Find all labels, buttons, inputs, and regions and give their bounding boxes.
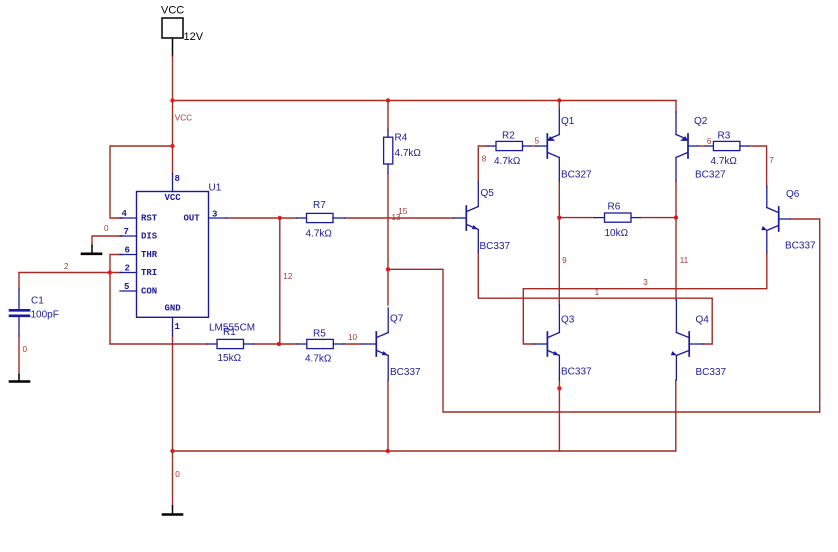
svg-text:GND: GND [165, 304, 182, 314]
wire DIS pin 7 to ground [92, 236, 122, 246]
node ground rail / Q7 emitter [386, 449, 390, 453]
svg-text:R1: R1 [223, 327, 236, 338]
svg-text:1: 1 [595, 288, 600, 297]
wire R6 right lead to net 11 [640, 217, 676, 219]
svg-text:2: 2 [125, 264, 130, 274]
svg-text:8: 8 [482, 154, 487, 163]
svg-text:10kΩ: 10kΩ [605, 228, 629, 239]
svg-text:3: 3 [643, 278, 648, 287]
wire R6 left lead [559, 217, 594, 219]
wire VCC vertical to top rail [172, 56, 174, 174]
transistor Q7 BC337 [362, 308, 388, 380]
wire R7 to Q5 base [345, 217, 454, 219]
transistor Q1 BC327 pnp [536, 110, 559, 181]
svg-text:R5: R5 [313, 329, 326, 340]
svg-text:Q4: Q4 [696, 315, 710, 326]
svg-text:4.7kΩ: 4.7kΩ [395, 148, 422, 159]
transistor Q6 BC337 mirrored [761, 186, 790, 253]
resistor R5 [297, 339, 345, 348]
svg-text:OUT: OUT [184, 214, 201, 224]
svg-text:BC327: BC327 [695, 170, 726, 181]
svg-text:15kΩ: 15kΩ [218, 353, 242, 364]
svg-text:BC337: BC337 [785, 241, 816, 252]
svg-text:12V: 12V [184, 31, 204, 43]
wire Q3 emitter to ground rail [558, 380, 560, 451]
svg-text:BC337: BC337 [696, 367, 727, 378]
svg-text:R2: R2 [502, 131, 515, 142]
svg-text:4: 4 [122, 209, 128, 219]
power VCC 12V source symbol [162, 18, 183, 56]
svg-text:4.7kΩ: 4.7kΩ [711, 156, 738, 167]
svg-text:Q3: Q3 [561, 315, 575, 326]
wire bottom ground rail [173, 450, 676, 452]
wire ground stem [172, 451, 174, 506]
svg-text:1: 1 [175, 322, 181, 332]
svg-text:CON: CON [141, 287, 157, 297]
node ground rail left [170, 449, 174, 453]
node Q1 collector / R6 / net 9 [557, 215, 561, 219]
svg-text:6: 6 [125, 246, 130, 256]
svg-text:9: 9 [562, 256, 567, 265]
wire OUT pin 3 to R7 [226, 217, 297, 219]
svg-text:15: 15 [398, 207, 408, 216]
svg-text:BC337: BC337 [561, 367, 592, 378]
U1 pin 1 lead [172, 317, 174, 336]
svg-text:100pF: 100pF [31, 310, 59, 321]
U1 pin 7 lead [120, 235, 137, 237]
wire riser to Q6 base [790, 219, 820, 412]
op-amp U1 LM555CM body [137, 192, 209, 318]
svg-text:R3: R3 [718, 131, 731, 142]
node top rail / VCC vertical [170, 98, 174, 102]
svg-text:0: 0 [23, 345, 28, 354]
svg-text:4.7kΩ: 4.7kΩ [306, 229, 333, 240]
node net 12 / R1 R5 [277, 342, 281, 346]
transistor Q5 BC337 [454, 182, 479, 252]
svg-text:5: 5 [535, 136, 540, 145]
U1 pin 6 lead [120, 254, 137, 256]
wire net 3 horizontal to Q3 base [523, 289, 767, 344]
svg-text:DIS: DIS [141, 232, 158, 242]
U1 pin 3 lead [209, 217, 227, 219]
node top rail / Q1 emitter [557, 98, 561, 102]
ground at bottom [163, 506, 182, 515]
resistor R1 [207, 339, 254, 348]
transistor Q4 BC337 mirrored [671, 300, 703, 380]
svg-text:VCC: VCC [175, 114, 192, 123]
wire Q2 base to R3 [698, 145, 706, 147]
svg-text:THR: THR [141, 250, 158, 260]
svg-text:0: 0 [104, 224, 109, 233]
wire R4 bottom to Q7 collector [387, 174, 389, 306]
svg-text:U1: U1 [209, 183, 222, 194]
wire net 15 branch to right riser [388, 269, 820, 412]
svg-text:12: 12 [283, 272, 293, 281]
node Q3 emitter [557, 386, 561, 390]
wire C1 top lead riser [18, 273, 20, 290]
wire TRI pin 2 from C1 [19, 272, 122, 274]
node THR-TRI junction [108, 270, 112, 274]
capacitor C1 [10, 289, 29, 336]
svg-text:8: 8 [175, 174, 180, 184]
svg-text:4.7kΩ: 4.7kΩ [494, 156, 521, 167]
svg-text:2: 2 [64, 262, 69, 271]
resistor R6 [595, 213, 641, 222]
resistor R4 vertical [384, 130, 393, 174]
U1 pin 8 lead [172, 174, 174, 192]
svg-text:VCC: VCC [161, 5, 184, 17]
wire Q6 emitter to net 3 [766, 253, 768, 289]
node R6 / Q2 collector / net 11 [674, 215, 678, 219]
wire net 12 vertical [279, 218, 281, 344]
wire net 1 Q5 emitter to Q4 base [478, 252, 712, 344]
transistor Q3 BC337 [534, 305, 559, 380]
wire VCC branch to RST pin 4 [110, 146, 173, 218]
svg-text:R6: R6 [608, 202, 621, 213]
wire TRI net horizontal to R1 [110, 343, 207, 345]
U1 pin 2 lead [120, 272, 137, 274]
node top rail / R4 [386, 98, 390, 102]
ground at C1 [10, 375, 29, 382]
svg-text:Q7: Q7 [390, 314, 404, 325]
node OUT / net 12 [278, 216, 282, 220]
resistor R7 [297, 213, 345, 222]
wire Q2 collector down [675, 181, 677, 218]
svg-text:4.7kΩ: 4.7kΩ [305, 354, 332, 365]
svg-text:BC327: BC327 [561, 170, 592, 181]
svg-text:BC337: BC337 [390, 367, 421, 378]
wire top VCC rail [173, 100, 677, 102]
wire Q1 collector to R6 row [558, 181, 560, 218]
svg-text:VCC: VCC [165, 193, 182, 203]
svg-text:Q5: Q5 [481, 188, 495, 199]
svg-text:TRI: TRI [141, 268, 157, 278]
wire Q2 emitter from top rail [675, 101, 677, 113]
ground at DIS [82, 246, 101, 254]
svg-text:Q1: Q1 [561, 116, 575, 127]
wire Q5 collector to R2 [478, 146, 488, 182]
svg-text:7: 7 [769, 156, 774, 165]
transistor Q2 BC327 pnp mirrored [676, 112, 698, 181]
svg-text:R7: R7 [313, 200, 326, 211]
node R4 bottom branch [386, 267, 390, 271]
wire R3 to Q6 collector net 7 [748, 146, 767, 186]
wire net 9 vertical to Q3 collector [558, 218, 560, 305]
U1 pin 4 lead [120, 217, 137, 219]
svg-text:RST: RST [141, 214, 158, 224]
svg-text:6: 6 [707, 137, 712, 146]
svg-text:5: 5 [124, 282, 129, 292]
svg-text:BC337: BC337 [480, 241, 511, 252]
wire 555 pin 1 down to ground rail [172, 336, 174, 451]
wire net 11 vertical to Q4 collector [675, 218, 677, 300]
svg-text:10: 10 [348, 333, 358, 342]
wire C1 bottom to ground [18, 336, 20, 375]
wire Q4 emitter to ground rail [675, 380, 677, 451]
svg-text:R4: R4 [395, 133, 408, 144]
wire R5 to Q7 base [344, 343, 362, 345]
resistor R2 [488, 141, 531, 150]
wire Q1 emitter top stub [558, 101, 560, 111]
wire R2 to Q1 base [531, 145, 537, 147]
U1 pin 5 lead [120, 290, 137, 292]
node VCC branch [170, 144, 174, 148]
svg-text:0: 0 [175, 470, 180, 479]
svg-text:11: 11 [680, 256, 689, 265]
svg-text:Q6: Q6 [786, 189, 800, 200]
svg-text:3: 3 [212, 210, 217, 220]
svg-text:C1: C1 [31, 296, 44, 307]
svg-text:7: 7 [124, 227, 129, 237]
wire R4 top lead [387, 101, 389, 130]
svg-text:Q2: Q2 [694, 116, 708, 127]
resistor R3 [706, 141, 749, 150]
wire THR pin 6 down to TRI net [110, 255, 122, 345]
wire R1 to R5 [254, 343, 297, 345]
wire Q7 emitter to ground rail [387, 380, 389, 451]
